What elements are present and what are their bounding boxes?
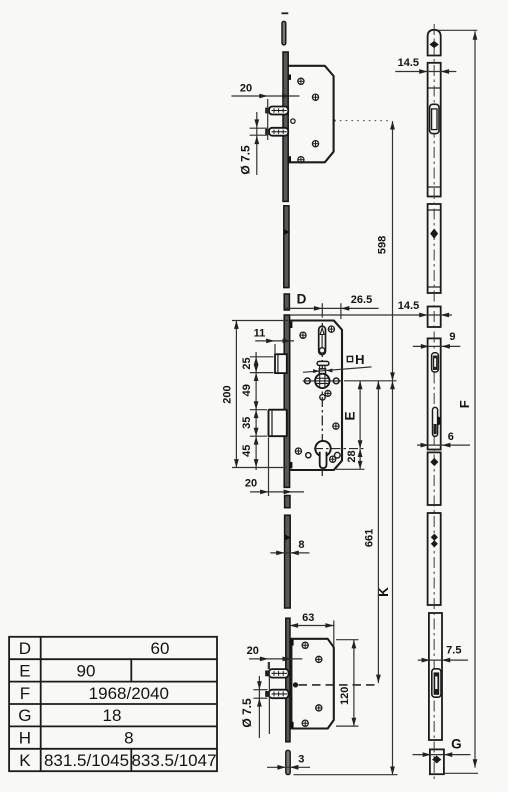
svg-text:8: 8 <box>298 539 304 551</box>
svg-text:120: 120 <box>339 687 351 705</box>
svg-text:K: K <box>19 751 31 770</box>
svg-text:H: H <box>19 729 31 748</box>
svg-text:1968/2040: 1968/2040 <box>89 684 169 703</box>
svg-text:20: 20 <box>245 477 257 489</box>
svg-text:833.5/1047: 833.5/1047 <box>131 751 216 770</box>
svg-text:6: 6 <box>448 431 454 443</box>
svg-text:60: 60 <box>151 639 170 658</box>
svg-text:H: H <box>355 352 364 367</box>
svg-text:11: 11 <box>254 328 266 340</box>
svg-text:20: 20 <box>247 645 259 657</box>
svg-text:18: 18 <box>103 706 122 725</box>
svg-text:598: 598 <box>376 236 388 254</box>
svg-text:25: 25 <box>241 357 253 369</box>
svg-text:D: D <box>19 639 31 658</box>
svg-text:F: F <box>20 684 30 703</box>
svg-text:7.5: 7.5 <box>446 645 461 657</box>
svg-text:661: 661 <box>363 529 375 547</box>
svg-text:49: 49 <box>241 384 253 396</box>
svg-text:14.5: 14.5 <box>398 57 419 69</box>
svg-text:831.5/1045: 831.5/1045 <box>44 751 129 770</box>
svg-text:E: E <box>19 661 30 680</box>
svg-text:Ø 7.5: Ø 7.5 <box>240 698 254 728</box>
svg-text:F: F <box>457 400 472 408</box>
svg-text:90: 90 <box>77 661 96 680</box>
svg-text:8: 8 <box>124 729 133 748</box>
svg-text:45: 45 <box>241 445 253 457</box>
svg-text:63: 63 <box>302 612 314 624</box>
svg-text:G: G <box>18 706 31 725</box>
svg-text:20: 20 <box>240 83 252 95</box>
svg-text:9: 9 <box>449 331 455 343</box>
svg-text:200: 200 <box>221 385 233 403</box>
svg-text:28: 28 <box>346 450 358 462</box>
svg-text:G: G <box>451 737 462 752</box>
svg-text:14.5: 14.5 <box>398 300 419 312</box>
svg-text:D: D <box>297 292 307 307</box>
svg-text:Ø 7.5: Ø 7.5 <box>238 145 252 175</box>
svg-text:3: 3 <box>298 754 304 766</box>
svg-text:35: 35 <box>241 417 253 429</box>
svg-text:26.5: 26.5 <box>351 294 372 306</box>
svg-text:E: E <box>342 411 357 420</box>
